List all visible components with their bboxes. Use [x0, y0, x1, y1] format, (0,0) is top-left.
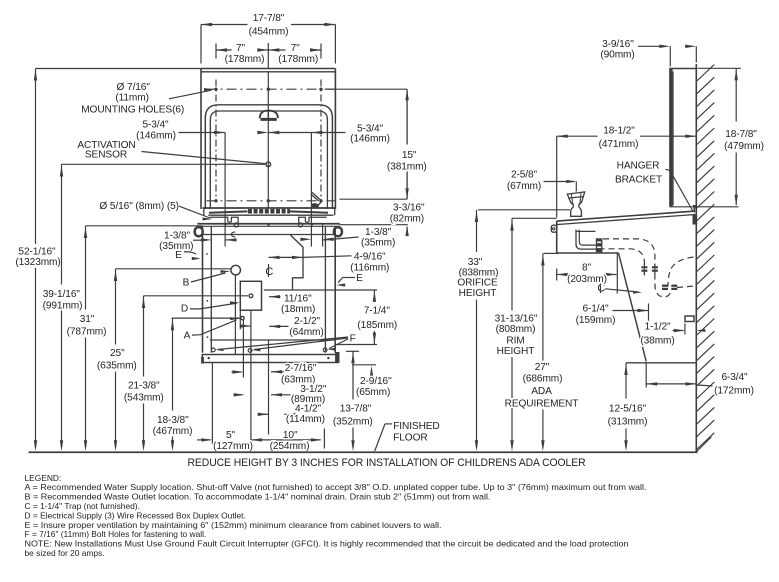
- svg-text:(686mm): (686mm): [523, 374, 563, 385]
- cabinet inner left edge: [210, 227, 212, 353]
- svg-text:39-1/16": 39-1/16": [43, 289, 81, 300]
- svg-text:2-7/16": 2-7/16": [285, 363, 317, 374]
- svg-text:(543mm): (543mm): [124, 393, 164, 404]
- dimension 13-7/8: [346, 350, 359, 352]
- basin drain band: [248, 209, 290, 214]
- vertical extension lines to bottom dims: [211, 362, 213, 444]
- svg-text:E: E: [356, 273, 363, 284]
- svg-text:HEIGHT: HEIGHT: [497, 346, 535, 357]
- left bracket hook: [210, 217, 238, 223]
- svg-text:A: A: [184, 331, 191, 342]
- svg-text:1-3/8": 1-3/8": [164, 231, 191, 242]
- svg-text:(185mm): (185mm): [357, 320, 397, 331]
- svg-text:(116mm): (116mm): [350, 262, 389, 273]
- svg-text:(159mm): (159mm): [576, 315, 616, 326]
- svg-text:(114mm): (114mm): [286, 414, 325, 425]
- dimension 10 inch: [263, 439, 321, 441]
- svg-text:18-3/8": 18-3/8": [157, 415, 189, 426]
- mounting holes bottom row: [214, 199, 217, 202]
- front view: basin opening rounded outline outer: [205, 105, 332, 209]
- basin rim section: [203, 207, 337, 209]
- activation sensor dot: [266, 162, 271, 167]
- svg-text:(467mm): (467mm): [153, 426, 193, 437]
- svg-text:5": 5": [226, 430, 236, 441]
- dimension 3-1/2 arrow: [234, 394, 243, 396]
- dimension 6-3/4: [645, 363, 647, 388]
- left height dimension 52-1/16: [36, 68, 202, 70]
- base plate: [202, 355, 337, 363]
- cabinet bottom line: [210, 339, 335, 341]
- recess top line: [264, 289, 335, 291]
- svg-text:(808mm): (808mm): [496, 324, 536, 335]
- cabinet inner right edge: [324, 227, 326, 353]
- svg-text:(471mm): (471mm): [599, 139, 639, 150]
- supply hole A: [241, 316, 244, 319]
- front push button plate: [551, 225, 556, 232]
- dimension 1-3/8 left: [201, 238, 212, 241]
- svg-text:31": 31": [80, 314, 95, 325]
- svg-text:(146mm): (146mm): [136, 130, 176, 141]
- orifice height extension: [478, 209, 570, 211]
- dimension 8 inch side: [556, 269, 558, 281]
- svg-text:(127mm): (127mm): [213, 441, 253, 452]
- svg-text:(991mm): (991mm): [43, 301, 83, 312]
- dimension 1-1/2: [673, 330, 684, 332]
- supply valves: [641, 266, 647, 268]
- svg-text:8": 8": [582, 263, 592, 274]
- dimension 3-3/16: [340, 224, 408, 226]
- dimension 11/16: [269, 295, 280, 298]
- svg-text:B = Recommended Waste Outlet l: B = Recommended Waste Outlet location. T…: [25, 492, 491, 502]
- svg-text:7-1/4": 7-1/4": [364, 306, 391, 317]
- svg-text:REQUIREMENT: REQUIREMENT: [505, 399, 579, 410]
- svg-text:FINISHED: FINISHED: [393, 421, 439, 432]
- side basin interior bowl: [576, 230, 596, 250]
- svg-text:21-3/8": 21-3/8": [128, 381, 160, 392]
- left height dimension 18-3/8: [172, 318, 174, 410]
- svg-text:(67mm): (67mm): [507, 181, 541, 192]
- svg-text:2-5/8": 2-5/8": [511, 170, 538, 181]
- side drain fitting dark: [596, 238, 603, 252]
- side slanted lower panel: [619, 253, 647, 362]
- dimension 5 inch: [197, 439, 211, 441]
- svg-text:(635mm): (635mm): [97, 361, 137, 372]
- svg-text:(146mm): (146mm): [350, 133, 390, 144]
- svg-text:4-1/2": 4-1/2": [295, 404, 322, 415]
- svg-text:(38mm): (38mm): [640, 336, 674, 347]
- svg-text:5-3/4": 5-3/4": [142, 120, 169, 131]
- svg-text:SENSOR: SENSOR: [85, 150, 127, 161]
- side height dimension 31-13/16: [511, 218, 513, 310]
- svg-text:(82mm): (82mm): [390, 213, 424, 224]
- svg-text:3-9/16": 3-9/16": [602, 39, 634, 50]
- dimension 2-9/16: [352, 364, 376, 366]
- basin lower shelf: [197, 223, 339, 225]
- dashed supply pipe: [603, 239, 655, 284]
- svg-text:B: B: [183, 278, 190, 289]
- svg-text:6-1/4": 6-1/4": [582, 304, 609, 315]
- left height dimension 39-1/16: [61, 164, 63, 284]
- svg-text:(178mm): (178mm): [278, 54, 318, 65]
- svg-text:7": 7": [291, 43, 301, 54]
- svg-text:(203mm): (203mm): [567, 274, 607, 285]
- svg-text:(90mm): (90mm): [600, 49, 634, 60]
- side view top surface: [557, 211, 696, 221]
- electrical box D: [240, 281, 261, 310]
- svg-text:FLOOR: FLOOR: [393, 432, 427, 443]
- svg-text:3-3/16": 3-3/16": [393, 203, 425, 214]
- dimension 2-7/16 arrow: [242, 320, 244, 378]
- svg-text:HANGER: HANGER: [617, 161, 660, 172]
- dimension 4-9/16: [269, 256, 304, 258]
- front view: wall back panel: [201, 68, 335, 70]
- side bottom line: [626, 362, 697, 364]
- dimension 3-9/16: [638, 45, 660, 47]
- box center line extension: [250, 310, 252, 444]
- svg-text:27": 27": [535, 362, 550, 373]
- svg-text:Ø 7/16": Ø 7/16": [117, 82, 151, 93]
- dashed supply arc from wall: [668, 257, 694, 286]
- svg-text:BRACKET: BRACKET: [615, 175, 662, 186]
- svg-text:13-7/8": 13-7/8": [340, 403, 372, 414]
- svg-text:7": 7": [236, 43, 246, 54]
- svg-text:31-13/16": 31-13/16": [495, 313, 538, 324]
- svg-text:RIM: RIM: [506, 335, 524, 346]
- small hook below left shelf circle: [231, 232, 235, 237]
- waste circle vertical line: [234, 275, 236, 354]
- svg-text:NOTE: New Installations Must U: NOTE: New Installations Must Use Ground …: [25, 539, 629, 549]
- right bracket hook: [299, 217, 327, 223]
- svg-text:12-5/16": 12-5/16": [609, 404, 647, 415]
- svg-text:(454mm): (454mm): [249, 26, 289, 37]
- left height dimension 31: [85, 226, 87, 310]
- leader mounting holes: [169, 90, 212, 99]
- mounting hole dash line right: [320, 80, 322, 203]
- mounting holes top row: [214, 88, 217, 91]
- svg-text:ORIFICE: ORIFICE: [457, 278, 498, 289]
- louver dots: [206, 300, 208, 302]
- svg-text:D: D: [181, 304, 188, 315]
- dashed trap: [655, 284, 671, 297]
- leader 5/16: [179, 206, 210, 218]
- svg-text:1-1/2": 1-1/2": [644, 322, 671, 333]
- rim height extension: [512, 217, 557, 219]
- dimension 39-1/16 extension to sensor: [62, 163, 266, 165]
- leader hanger bracket: [666, 169, 670, 170]
- svg-text:17-7/8": 17-7/8": [253, 13, 285, 24]
- basin interior blade right: [290, 211, 328, 212]
- dimension 15 right side: [325, 88, 408, 90]
- louver notch step: [290, 235, 303, 290]
- shelf small holes: [224, 223, 226, 225]
- svg-text:F: F: [350, 333, 356, 344]
- mounting hole dash line left: [215, 80, 217, 203]
- svg-text:(254mm): (254mm): [270, 441, 310, 452]
- svg-text:15": 15": [402, 150, 417, 161]
- louver panel top line: [203, 234, 335, 236]
- svg-text:HEIGHT: HEIGHT: [459, 288, 497, 299]
- shelf circles F holes: [234, 223, 238, 227]
- dashed waste to wall: [677, 286, 695, 288]
- right bumper: [334, 227, 342, 236]
- side view wall line: [695, 64, 697, 452]
- svg-text:18-1/2": 18-1/2": [603, 126, 635, 137]
- dimension 2-1/2: [240, 324, 251, 327]
- anchor bolt circles F: [211, 348, 215, 352]
- svg-text:E: E: [175, 250, 182, 261]
- wall drain stub: [685, 316, 694, 322]
- dimension 4-1/2 arrow: [258, 413, 269, 416]
- left height dimension 21-3/8: [143, 296, 145, 377]
- svg-text:(381mm): (381mm): [387, 162, 427, 173]
- dimension 18-3/8 extension: [172, 317, 241, 319]
- svg-text:(18mm): (18mm): [281, 304, 315, 315]
- side height dimension 27: [542, 253, 544, 360]
- svg-text:F = 7/16" (11mm) Bolt Holes fo: F = 7/16" (11mm) Bolt Holes for fastenin…: [25, 529, 207, 539]
- svg-text:(479mm): (479mm): [724, 141, 764, 152]
- svg-text:6-3/4": 6-3/4": [721, 372, 748, 383]
- svg-text:(313mm): (313mm): [608, 417, 648, 428]
- svg-text:(1323mm): (1323mm): [15, 257, 60, 268]
- svg-text:2-9/16": 2-9/16": [360, 376, 392, 387]
- wall hatching: [696, 65, 714, 82]
- svg-text:1-3/8": 1-3/8": [365, 227, 392, 238]
- svg-text:(35mm): (35mm): [361, 238, 395, 249]
- trap valves: [662, 285, 668, 287]
- svg-text:(787mm): (787mm): [67, 327, 107, 338]
- dimension 5-3/4 right: [268, 132, 311, 134]
- dimension 7 inch left and right: [215, 44, 217, 59]
- svg-text:(352mm): (352mm): [333, 416, 373, 427]
- svg-text:2-1/2": 2-1/2": [294, 316, 321, 327]
- front view: basin opening rounded outline inner: [210, 111, 327, 209]
- basin interior blade left: [209, 211, 248, 212]
- floor line: [29, 451, 698, 453]
- leader activation sensor: [142, 152, 267, 164]
- dimension 1-3/8 right: [322, 223, 324, 246]
- svg-text:11/16": 11/16": [284, 294, 312, 305]
- side view front edge: [556, 221, 558, 253]
- bubbler arm lever detail: [312, 192, 321, 206]
- dimension 18-1/2: [557, 135, 598, 137]
- side height dimension 12-5/16: [625, 363, 627, 399]
- dimension 6-1/4: [613, 310, 649, 312]
- svg-text:C: C: [265, 266, 273, 278]
- front view: bubbler: [260, 111, 278, 119]
- svg-text:18-7/8": 18-7/8": [725, 129, 757, 140]
- ada extension: [544, 252, 559, 254]
- svg-text:(172mm): (172mm): [714, 386, 754, 397]
- dimension 17-7/8 top: [201, 24, 248, 26]
- side bubbler: [567, 192, 584, 216]
- svg-text:REDUCE HEIGHT BY 3 INCHES FOR: REDUCE HEIGHT BY 3 INCHES FOR INSTALLATI…: [188, 457, 586, 469]
- svg-text:25": 25": [110, 348, 125, 359]
- dimension 25 extension: [116, 268, 231, 270]
- dimension 21-3/8 extension: [144, 295, 249, 297]
- left height dimension 25: [115, 269, 117, 345]
- dimension 18-7/8: [698, 67, 742, 69]
- side height dimension 33: [476, 210, 478, 252]
- svg-text:52-1/16": 52-1/16": [18, 246, 56, 257]
- svg-text:(838mm): (838mm): [459, 267, 499, 278]
- waste outlet circle B: [231, 265, 241, 275]
- svg-text:33": 33": [468, 257, 483, 268]
- svg-text:10": 10": [283, 430, 298, 441]
- cabinet outer right edge: [334, 227, 336, 353]
- svg-text:(178mm): (178mm): [225, 54, 265, 65]
- centerline vertical front view: [267, 43, 269, 69]
- dimension 7-1/4: [335, 289, 377, 291]
- hanger bracket back plate: [669, 69, 672, 207]
- svg-text:(11mm): (11mm): [115, 93, 149, 104]
- svg-text:be sized for 20 amps.: be sized for 20 amps.: [25, 548, 105, 558]
- cabinet outer left edge: [202, 227, 204, 353]
- svg-text:ADA: ADA: [531, 386, 552, 397]
- hanger bracket foot line: [670, 206, 739, 208]
- box left line extension: [239, 310, 241, 329]
- svg-text:MOUNTING HOLES(6): MOUNTING HOLES(6): [81, 105, 184, 116]
- svg-text:(65mm): (65mm): [356, 387, 390, 398]
- svg-text:4-9/16": 4-9/16": [354, 251, 386, 262]
- left bumper: [195, 227, 203, 236]
- svg-text:Ø 5/16" (8mm) (5): Ø 5/16" (8mm) (5): [99, 201, 179, 212]
- svg-text:(64mm): (64mm): [289, 327, 323, 338]
- mounting holes row dash horizontal: [207, 88, 335, 90]
- side basin underside: [557, 252, 619, 254]
